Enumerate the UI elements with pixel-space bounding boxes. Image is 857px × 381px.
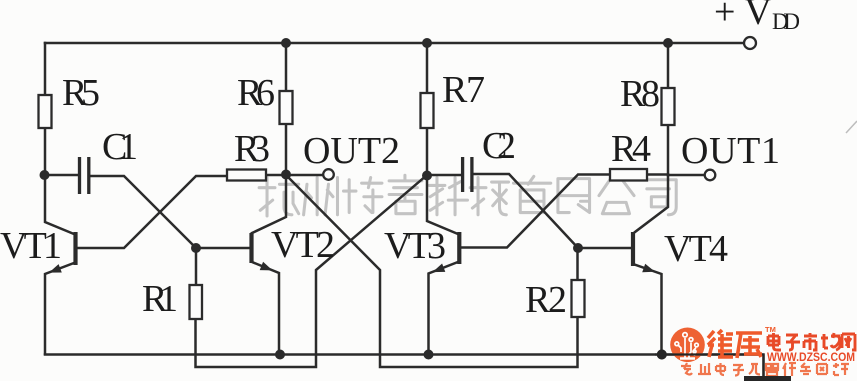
svg-text:C2: C2 <box>482 125 516 167</box>
svg-text:R5: R5 <box>62 72 100 114</box>
svg-text:TM: TM <box>765 325 776 334</box>
svg-text:R1: R1 <box>142 278 178 320</box>
svg-text:VT4: VT4 <box>664 228 728 270</box>
svg-text:R3: R3 <box>234 128 270 170</box>
svg-text:R2: R2 <box>525 279 567 321</box>
svg-text:+ V: + V <box>714 0 772 33</box>
svg-text:VT3: VT3 <box>384 225 446 267</box>
svg-text:DD: DD <box>772 9 800 34</box>
svg-text:R4: R4 <box>611 128 651 170</box>
svg-text:C1: C1 <box>102 126 138 168</box>
svg-text:R8: R8 <box>620 73 660 115</box>
svg-text:VT2: VT2 <box>271 224 335 266</box>
svg-text:R7: R7 <box>442 69 485 111</box>
svg-text:OUT1: OUT1 <box>681 130 780 172</box>
svg-text:R6: R6 <box>237 72 275 114</box>
svg-text:OUT2: OUT2 <box>303 130 400 172</box>
svg-text:VT1: VT1 <box>0 225 62 267</box>
svg-text:WWW.DZSC.COM: WWW.DZSC.COM <box>767 352 855 364</box>
